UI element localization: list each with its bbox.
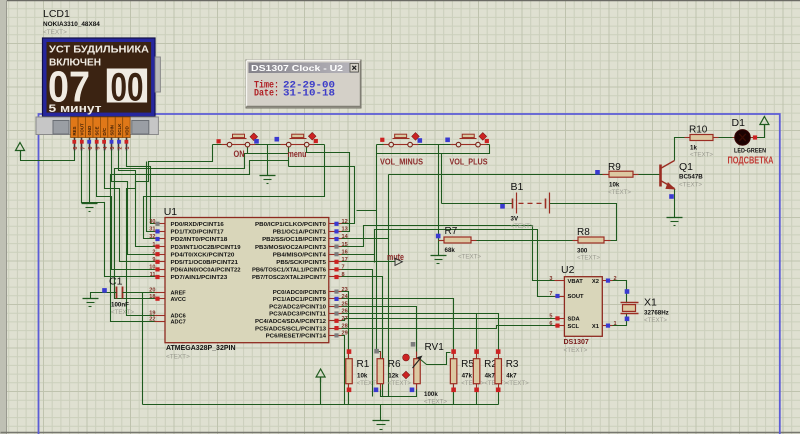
junction X1 top [625, 289, 630, 294]
svg-text:00: 00 [111, 66, 144, 110]
junction RV1 bottom [410, 388, 415, 393]
svg-text:PD5/T1/OC0B/PCINT21: PD5/T1/OC0B/PCINT21 [171, 260, 238, 266]
svg-text:<TEXT>: <TEXT> [564, 347, 588, 354]
ground lcd [82, 203, 98, 205]
svg-text:1: 1 [125, 147, 131, 150]
svg-text:31: 31 [149, 227, 155, 233]
svg-text:GND: GND [87, 126, 92, 136]
wire lcd pin3 [112, 151, 155, 255]
svg-text:12k: 12k [388, 373, 399, 380]
wire pin27 sda [342, 319, 555, 321]
wire lcd pin2 [119, 151, 155, 247]
LCD highlight box [107, 69, 147, 103]
wire menu right down [144, 145, 325, 239]
resistor R9 body [603, 174, 609, 176]
svg-text:<TEXT>: <TEXT> [577, 255, 600, 262]
svg-text:1: 1 [152, 242, 155, 248]
svg-text:R6: R6 [388, 359, 401, 370]
resistor R7 body [439, 240, 445, 242]
sheet border [39, 114, 780, 434]
svg-text:<TEXT>: <TEXT> [679, 182, 702, 189]
chip U1 pins [155, 223, 165, 225]
wire volminus left [377, 145, 442, 204]
pot RV1 dot [403, 354, 410, 361]
svg-text:VOL_MINUS: VOL_MINUS [380, 157, 423, 167]
wire r1 bottom [348, 390, 350, 405]
svg-text:16: 16 [342, 249, 348, 255]
svg-text:SDIN: SDIN [109, 125, 114, 136]
wire pin26 r2 r3 [342, 314, 499, 352]
svg-text:<TEXT>: <TEXT> [166, 354, 190, 361]
svg-text:PC5/ADC5/SCL/PCINT13: PC5/ADC5/SCL/PCINT13 [255, 326, 326, 332]
svg-text:19: 19 [149, 310, 155, 316]
junction volminus left [380, 138, 384, 142]
wire lcd pin4 [105, 151, 155, 262]
svg-text:VOUT: VOUT [80, 123, 85, 136]
wire lcd pin1 [127, 151, 155, 224]
junction C1 [102, 288, 107, 293]
junction R1 bottom [347, 388, 352, 393]
wire R9 left [389, 174, 609, 176]
svg-text:PB6/TOSC1/XTAL1/PCINT6: PB6/TOSC1/XTAL1/PCINT6 [252, 268, 326, 274]
wire pin25 rv1 [342, 307, 417, 352]
wire mute pin17 [342, 261, 395, 263]
svg-text:U1: U1 [164, 206, 178, 218]
wire volminus drop [377, 154, 381, 359]
svg-text:17: 17 [342, 257, 348, 263]
svg-text:RV1: RV1 [425, 342, 445, 353]
svg-text:5: 5 [549, 314, 552, 320]
LCD connector tab right [132, 121, 149, 135]
svg-text:ADC7: ADC7 [171, 320, 186, 326]
actuator menu [308, 132, 316, 140]
svg-text:5 минут: 5 минут [49, 103, 103, 115]
transistor Q1 base bar [659, 165, 662, 187]
svg-text:1k: 1k [690, 145, 697, 152]
svg-text:7: 7 [549, 291, 552, 297]
ground q1 [667, 217, 683, 219]
svg-text:15: 15 [342, 242, 348, 248]
svg-text:8: 8 [342, 272, 345, 278]
wire battery left [442, 203, 513, 205]
svg-text:31-10-18: 31-10-18 [283, 89, 335, 100]
svg-text:PB2/SS/OC1B/PCINT2: PB2/SS/OC1B/PCINT2 [262, 237, 326, 243]
wire rail power stem [320, 377, 322, 405]
svg-text:X1: X1 [644, 297, 657, 309]
wire pin16 sout [342, 230, 555, 297]
wire r5 bottom [453, 390, 455, 405]
junction Q1 [669, 194, 674, 199]
svg-text:4k7: 4k7 [485, 373, 496, 380]
svg-text:PB4/MISO/PCINT4: PB4/MISO/PCINT4 [273, 252, 327, 258]
power arrow right [760, 117, 769, 125]
wire ON left stair [127, 145, 213, 316]
junction R1 top [347, 349, 352, 354]
svg-text:25: 25 [342, 301, 348, 307]
svg-text:R1: R1 [357, 359, 370, 370]
resistor R10 body [685, 137, 691, 139]
svg-text:PC4/ADC4/SDA/PCINT12: PC4/ADC4/SDA/PCINT12 [255, 319, 326, 325]
svg-text:18: 18 [149, 294, 155, 300]
svg-text:PC2/ADC2/PCINT10: PC2/ADC2/PCINT10 [269, 304, 326, 310]
svg-text:SDA: SDA [568, 317, 581, 323]
svg-text:7: 7 [342, 265, 345, 271]
svg-text:Q1: Q1 [679, 161, 693, 173]
ground C1 [83, 298, 99, 300]
wire pin24 r5 [342, 299, 454, 352]
svg-text:12: 12 [342, 219, 348, 225]
svg-text:AVCC: AVCC [171, 297, 186, 303]
svg-text:PC6/RESET/PCINT14: PC6/RESET/PCINT14 [266, 334, 327, 340]
resistor R8 body [573, 240, 579, 242]
pot RV1 body [416, 352, 418, 359]
svg-text:10k: 10k [609, 182, 620, 189]
junction volplus left [445, 138, 450, 143]
wire r6 rv1 bottoms [381, 390, 417, 397]
wire q1 emitter [674, 189, 676, 218]
svg-text:22: 22 [149, 317, 155, 323]
resistor R6 body [380, 352, 382, 359]
svg-text:menu: menu [288, 149, 307, 159]
resistor R2 body [476, 352, 478, 359]
svg-text:26: 26 [342, 309, 348, 315]
svg-text:VDD: VDD [124, 126, 129, 135]
wire pin29 drop [342, 336, 345, 405]
svg-text:5: 5 [95, 147, 101, 150]
wire v2 R9 drop [388, 175, 390, 397]
svg-text:AREF: AREF [171, 291, 187, 297]
LCD side tab [155, 57, 160, 92]
junction R5 top [451, 349, 456, 354]
junction R3 top [496, 349, 501, 354]
led D1 body [735, 130, 751, 146]
svg-text:100k: 100k [424, 391, 438, 398]
wire led power [753, 125, 765, 138]
svg-text:10k: 10k [357, 373, 368, 380]
svg-text:PD2/INT0/PCINT18: PD2/INT0/PCINT18 [171, 237, 228, 243]
svg-text:8: 8 [73, 147, 79, 150]
wire x2 crystal [605, 281, 627, 303]
junction R6 top [374, 349, 379, 354]
svg-text:X2: X2 [592, 279, 599, 285]
wire R7 left [439, 240, 443, 242]
svg-text:SCL: SCL [568, 324, 580, 330]
popup frame [246, 60, 361, 108]
junction R7 [436, 234, 441, 239]
button VOL_MINUS [384, 144, 389, 146]
button ON [222, 144, 228, 146]
junction R3 bottom [496, 388, 501, 393]
svg-text:<TEXT>: <TEXT> [690, 152, 713, 159]
crystal X1 body [623, 305, 636, 312]
wire power to LCD pin8 [21, 151, 75, 161]
svg-text:27: 27 [342, 316, 348, 322]
svg-text:SOUT: SOUT [568, 294, 585, 300]
wire x1 crystal [605, 314, 627, 326]
svg-text:<TEXT>: <TEXT> [111, 309, 134, 316]
svg-text:<TEXT>: <TEXT> [388, 380, 411, 387]
wire lcd pin7 [82, 151, 155, 277]
svg-text:<TEXT>: <TEXT> [424, 399, 447, 406]
junction RV1 topgrey [411, 342, 416, 347]
wire pin15 vbat [342, 226, 555, 281]
svg-text:УСТ БУДИЛЬНИКА: УСТ БУДИЛЬНИКА [49, 45, 149, 56]
svg-text:PD1/TXD/PCINT17: PD1/TXD/PCINT17 [171, 230, 224, 236]
junction D1 [753, 135, 757, 139]
svg-text:100nF: 100nF [111, 302, 129, 309]
svg-text:DS1307 Clock - U2: DS1307 Clock - U2 [251, 63, 343, 73]
svg-text:RES: RES [72, 126, 77, 135]
svg-text:4k7: 4k7 [506, 373, 517, 380]
pot RV1 diamond [402, 371, 410, 379]
svg-text:<TEXT>: <TEXT> [357, 380, 380, 387]
transistor Q1 collector [661, 161, 675, 169]
svg-text:PD0/RXD/PCINT16: PD0/RXD/PCINT16 [171, 222, 224, 228]
transistor Q1 emitter [661, 181, 675, 189]
svg-text:LED-GREEN: LED-GREEN [734, 148, 766, 155]
svg-text:2: 2 [614, 276, 617, 282]
svg-text:Date:: Date: [254, 89, 279, 100]
junction menu left [275, 137, 280, 142]
wire pin12 long [289, 167, 355, 224]
svg-text:ATMEGA328P_32PIN: ATMEGA328P_32PIN [166, 345, 236, 352]
resistor R5 body [453, 352, 455, 359]
junction R5 bottom [451, 388, 456, 393]
wire pin8 drop [342, 277, 383, 397]
svg-text:6: 6 [88, 147, 94, 150]
svg-text:D/C: D/C [102, 127, 107, 135]
wire r2 drop [476, 314, 478, 352]
svg-text:PC1/ADC1/PCINT9: PC1/ADC1/PCINT9 [273, 297, 326, 303]
svg-text:<TEXT>: <TEXT> [506, 380, 529, 387]
svg-text:47k: 47k [462, 373, 473, 380]
wire R9 right base [635, 174, 660, 176]
svg-text:PB1/OC1A/PCINT1: PB1/OC1A/PCINT1 [273, 230, 326, 236]
svg-text:28: 28 [342, 323, 348, 329]
ground bottom [373, 420, 390, 422]
wire menu right to pin13 [307, 145, 350, 232]
svg-text:<TEXT>: <TEXT> [43, 29, 67, 36]
svg-text:PC0/ADC0/PCINT8: PC0/ADC0/PCINT8 [273, 290, 326, 296]
button VOL_PLUS [451, 144, 457, 146]
svg-text:PB7/TOSC2/XTAL2/PCINT7: PB7/TOSC2/XTAL2/PCINT7 [252, 275, 326, 281]
svg-text:24: 24 [342, 294, 349, 300]
junction R2 top [474, 349, 479, 354]
junction battery [500, 204, 505, 209]
wire aref rail [143, 293, 155, 405]
junction X1 bottom [625, 317, 630, 322]
svg-text:29: 29 [342, 331, 348, 337]
cap C1 plates [116, 287, 118, 299]
wire pin14 [342, 238, 389, 240]
svg-text:68k: 68k [445, 247, 456, 254]
resistor R1 body [348, 352, 350, 359]
svg-text:<TEXT>: <TEXT> [511, 223, 534, 230]
chip U2 body [564, 277, 602, 337]
wire pin23 r1 [342, 292, 349, 352]
svg-text:R10: R10 [689, 125, 708, 136]
svg-text:PD7/AIN1/PCINT23: PD7/AIN1/PCINT23 [171, 275, 228, 281]
wire menu left stair [111, 145, 289, 322]
power arrow rail [316, 369, 325, 377]
LCD frame [43, 38, 156, 117]
svg-text:NOKIA3310_48X84: NOKIA3310_48X84 [43, 21, 100, 28]
svg-text:2: 2 [118, 147, 124, 150]
svg-text:13: 13 [342, 227, 348, 233]
svg-text:D1: D1 [732, 117, 746, 129]
pot RV1 wiper [421, 353, 451, 365]
crystal X1 plates [621, 302, 639, 304]
wire battery right [550, 204, 617, 241]
svg-text:2: 2 [152, 249, 155, 255]
svg-text:4: 4 [103, 147, 109, 150]
svg-text:R9: R9 [608, 162, 621, 173]
svg-text:X1: X1 [592, 324, 600, 330]
actuator volplus [479, 133, 487, 141]
transistor Q1 base lead [660, 174, 661, 176]
svg-text:VOL_PLUS: VOL_PLUS [450, 157, 488, 167]
svg-text:23: 23 [342, 287, 348, 293]
svg-text:BC547B: BC547B [679, 174, 703, 181]
wire mid drop [438, 145, 440, 256]
wire ON menu gnd [267, 145, 269, 176]
svg-text:SCE: SCE [95, 126, 100, 135]
wire rail gnd [380, 405, 382, 421]
junction ON left [217, 139, 221, 143]
wire link pin12 vol [357, 210, 377, 212]
svg-text:R7: R7 [445, 226, 458, 237]
svg-text:<TEXT>: <TEXT> [644, 317, 667, 324]
wire lcd pin6 gnd [89, 151, 91, 204]
svg-text:R5: R5 [461, 359, 474, 370]
wire ON right stair [247, 145, 249, 154]
svg-text:SCLK: SCLK [117, 123, 122, 136]
svg-text:7: 7 [81, 147, 87, 150]
wire r3 bottom [498, 390, 500, 405]
junction RV1 grey2 [411, 346, 413, 348]
chip U2 pins [555, 280, 565, 282]
window left strip [0, 0, 7, 434]
wire ON menu row [213, 144, 325, 146]
wire C1 left [91, 293, 117, 299]
wire bottom rail [143, 404, 499, 406]
svg-text:3: 3 [110, 147, 116, 150]
junction R2 bottom [474, 388, 479, 393]
LCD connector bar [36, 117, 158, 135]
svg-text:R8: R8 [577, 227, 590, 238]
wire R7 R8 [471, 240, 579, 242]
svg-text:PB0/ICP1/CLKO/PCINT0: PB0/ICP1/CLKO/PCINT0 [255, 222, 326, 228]
junction R6 bottom [374, 388, 379, 393]
wire pin31 feeder [147, 162, 155, 232]
window top edge [1, 0, 800, 2]
wire r10 led [715, 137, 733, 139]
svg-text:6: 6 [549, 321, 552, 327]
wire lcd pin5 [97, 151, 155, 270]
svg-text:B1: B1 [511, 181, 524, 193]
window bottom edge [1, 432, 800, 434]
svg-text:3: 3 [549, 276, 552, 282]
svg-text:10: 10 [149, 265, 155, 271]
wire menu left tail [288, 161, 290, 167]
svg-text:300: 300 [577, 248, 588, 255]
LCD pins [71, 117, 78, 138]
svg-text:VBAT: VBAT [568, 279, 584, 285]
wire vol row [377, 144, 490, 146]
wire pin7 r6 [342, 270, 373, 397]
svg-text:11: 11 [150, 272, 156, 278]
svg-text:ON: ON [234, 149, 245, 159]
svg-text:<TEXT>: <TEXT> [458, 254, 481, 261]
svg-text:32: 32 [149, 234, 155, 240]
led D1 lead [733, 137, 753, 139]
wire pin28 scl [342, 326, 555, 329]
ground ON menu [260, 175, 276, 177]
power arrow left [16, 143, 25, 151]
wire q1 collector [675, 138, 689, 161]
svg-text:30: 30 [149, 219, 155, 225]
svg-text:<TEXT>: <TEXT> [608, 189, 631, 196]
button menu [281, 144, 287, 146]
svg-text:14: 14 [342, 234, 349, 240]
wire pin16 tail [374, 255, 376, 263]
svg-text:PC3/ADC3/PCINT11: PC3/ADC3/PCINT11 [269, 312, 326, 318]
battery plates [512, 199, 514, 209]
wire C1 right [123, 292, 155, 294]
svg-text:ADC6: ADC6 [171, 313, 186, 319]
svg-text:PB3/MOSI/OC2A/PCINT3: PB3/MOSI/OC2A/PCINT3 [255, 245, 326, 251]
wire volplus jog [442, 145, 490, 154]
actuator volminus [412, 133, 420, 141]
popup close btn [350, 64, 359, 73]
svg-text:ПОДСВЕТКА: ПОДСВЕТКА [728, 155, 774, 167]
wire menu branch [115, 154, 289, 299]
svg-text:R3: R3 [506, 359, 519, 370]
svg-text:C1: C1 [109, 276, 123, 288]
chip U1 body [165, 218, 329, 343]
svg-text:U2: U2 [561, 264, 575, 276]
svg-text:PB5/SCK/PCINT5: PB5/SCK/PCINT5 [276, 260, 326, 266]
resistor R3 body [498, 352, 500, 359]
LCD connector tab left [53, 121, 69, 135]
svg-text:1: 1 [614, 321, 617, 327]
actuator ON [250, 133, 258, 141]
svg-text:LCD1: LCD1 [43, 8, 70, 20]
svg-text:9: 9 [152, 257, 155, 263]
ground R7 [431, 255, 447, 257]
wire r2 bottom [476, 390, 478, 405]
svg-text:32768Hz: 32768Hz [644, 310, 669, 317]
svg-text:DS1307: DS1307 [564, 339, 589, 346]
svg-text:PD3/INT1/OC2B/PCINT19: PD3/INT1/OC2B/PCINT19 [171, 245, 241, 251]
svg-text:PD4/T0/XCK/PCINT20: PD4/T0/XCK/PCINT20 [171, 252, 235, 258]
svg-text:3V: 3V [511, 216, 519, 223]
svg-text:PD6/AIN0/OC0A/PCINT22: PD6/AIN0/OC0A/PCINT22 [171, 268, 241, 274]
junction R9 [595, 170, 600, 175]
